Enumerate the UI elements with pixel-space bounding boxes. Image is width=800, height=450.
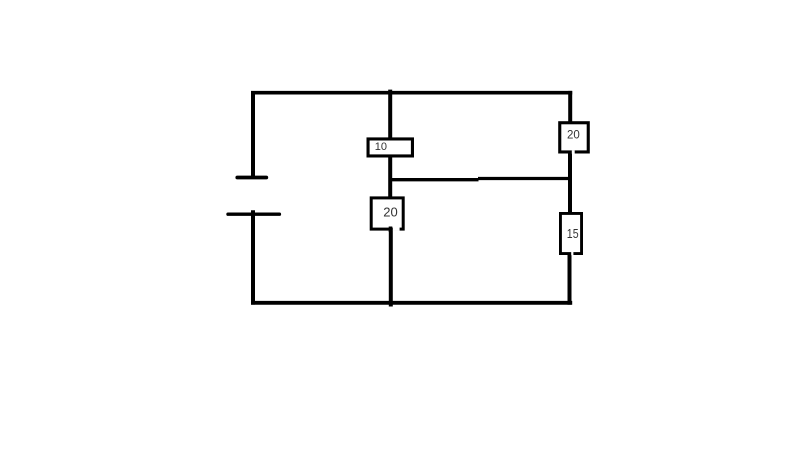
notch gap in R4 bottom border — [571, 252, 573, 255]
svg-text:10: 10 — [375, 141, 387, 153]
wire right vertical lower — [568, 253, 572, 305]
battery V1 top plate (negative, short) — [237, 176, 266, 180]
resistor R2 box — [371, 198, 403, 229]
wire top horizontal — [251, 91, 572, 95]
wire middle vertical from top wire to R1 — [388, 90, 392, 139]
notch gap in R3 bottom border — [572, 150, 575, 153]
wire left vertical lower — [251, 210, 255, 304]
notch gap in R2 bottom border — [393, 227, 400, 231]
wire right vertical middle — [568, 152, 572, 215]
svg-text:15: 15 — [567, 226, 579, 241]
wire bottom horizontal — [251, 301, 572, 305]
battery V1 bottom plate (positive, long) — [228, 212, 279, 215]
wire stub into R2 bottom — [389, 227, 393, 233]
wire middle vertical R2 to bottom — [389, 227, 393, 307]
wire right vertical upper — [568, 91, 572, 124]
resistor R1 box — [368, 139, 412, 156]
wire middle horizontal (node between R1/R2 to right branch) — [389, 178, 479, 181]
svg-text:20: 20 — [383, 204, 397, 219]
resistor R4 box — [560, 213, 581, 253]
resistor R3 box — [560, 123, 589, 152]
wire middle vertical R1 to R2 — [388, 155, 392, 198]
wire middle horizontal right part — [478, 177, 570, 180]
wire left vertical upper — [251, 91, 255, 177]
svg-text:20: 20 — [567, 129, 580, 141]
